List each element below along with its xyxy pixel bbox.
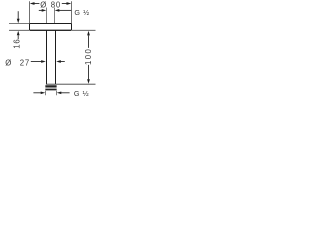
G 1/2 threaded nipple: bottom dark band <box>45 89 56 90</box>
pipe right edge <box>55 30 57 84</box>
dimension 100: upper arrow pointing up <box>87 31 90 36</box>
pipe left edge <box>46 30 48 84</box>
dimension G 1/2 top: right arrow pointing left <box>59 9 72 11</box>
background <box>0 0 100 100</box>
G 1/2 threaded nipple: top dark band <box>45 85 56 87</box>
dimension Ø80: left arrow <box>34 3 39 5</box>
dimension Ø27: right arrow pointing left <box>61 61 65 63</box>
flange top extension line to left <box>9 23 29 25</box>
dimension G 1/2 bottom: right arrow pointing left <box>61 92 70 94</box>
dimension Ø80: right extension line <box>71 1 73 23</box>
pipe bottom line with right extension <box>46 83 96 85</box>
dimension G 1/2 top: left extension bar <box>46 8 48 24</box>
dimension G 1/2 top: left arrow pointing right <box>39 9 42 11</box>
G 1/2 threaded nipple: light stripe <box>45 87 56 90</box>
svg-text:100: 100 <box>84 48 93 65</box>
dimension 100: lower arrow pointing down <box>88 65 90 80</box>
ceiling flange outline (Ø80 escutcheon) <box>30 24 72 31</box>
dimension 16: upper arrow pointing down <box>17 11 19 19</box>
flange bottom right extension line <box>72 29 96 31</box>
dimension Ø80: right arrow <box>62 3 67 5</box>
dimension Ø80: left extension line <box>29 1 31 23</box>
svg-text:Ø80: Ø80 <box>40 0 61 9</box>
dimension Ø27: left arrow pointing right <box>31 61 42 63</box>
flange bottom left extension line <box>9 29 29 31</box>
G 1/2 threaded nipple: body <box>45 85 56 90</box>
dimension G 1/2 bottom: left extension bar <box>45 91 47 95</box>
svg-text:16: 16 <box>12 38 21 48</box>
dimension 16: lower arrow pointing up <box>17 35 19 39</box>
dimension G 1/2 bottom: left arrow pointing right <box>33 92 41 94</box>
dimension G 1/2 top: right extension bar <box>54 8 56 24</box>
dimension G 1/2 bottom: right extension bar <box>56 91 58 95</box>
